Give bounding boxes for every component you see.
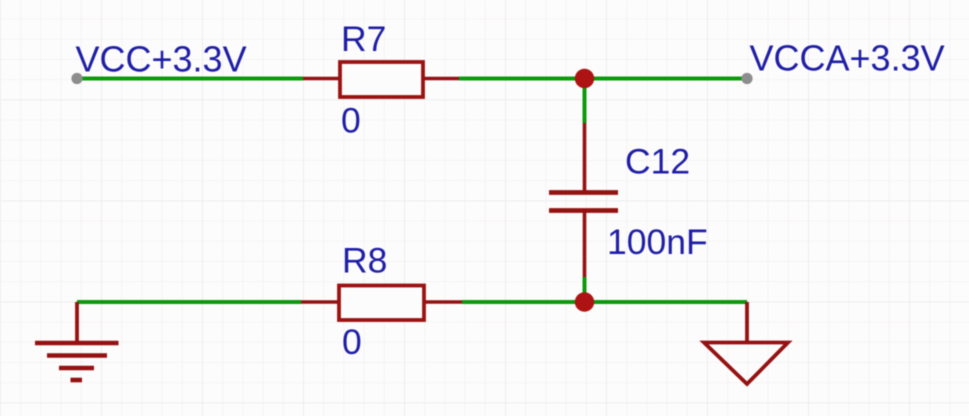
- capacitor C12 plates: [549, 190, 618, 195]
- wire: green drop from top junction: [583, 79, 587, 124]
- wire: R8 right pin (dark red): [424, 300, 462, 304]
- wire: bottom rail green left segment: [77, 300, 301, 304]
- wire: top rail green left segment: [77, 77, 303, 81]
- svg-text:VCCA+3.3V: VCCA+3.3V: [750, 38, 945, 79]
- capacitor C12 top pin: [583, 123, 587, 192]
- ground right triangle outline: [704, 343, 788, 385]
- wire: green into bottom junction: [583, 277, 587, 302]
- port dot VCC (gray): [71, 73, 82, 84]
- ground GND left: bars: [35, 341, 119, 346]
- capacitor C12 bottom pin: [583, 211, 587, 277]
- wire: top rail green right segment: [459, 77, 747, 81]
- ground GND left: stem: [75, 302, 79, 343]
- wire: R8 left pin (dark red): [301, 300, 339, 304]
- svg-text:100nF: 100nF: [607, 222, 708, 262]
- svg-text:0: 0: [342, 322, 362, 362]
- port dot VCCA (gray): [741, 73, 752, 84]
- svg-text:0: 0: [341, 101, 361, 141]
- junction dot bottom: [575, 292, 594, 311]
- wire: R7 right pin (dark red): [423, 77, 459, 81]
- junction dot top: [575, 69, 594, 88]
- wire: R7 left pin (dark red): [303, 77, 340, 81]
- svg-text:VCC+3.3V: VCC+3.3V: [76, 39, 247, 80]
- resistor R7: [340, 62, 423, 97]
- resistor R8: [339, 286, 424, 321]
- svg-text:R7: R7: [341, 19, 386, 59]
- svg-text:R8: R8: [342, 241, 387, 281]
- ground right (triangle): stem: [745, 302, 749, 342]
- svg-text:C12: C12: [625, 142, 690, 182]
- wire: bottom rail green right segment: [462, 300, 747, 304]
